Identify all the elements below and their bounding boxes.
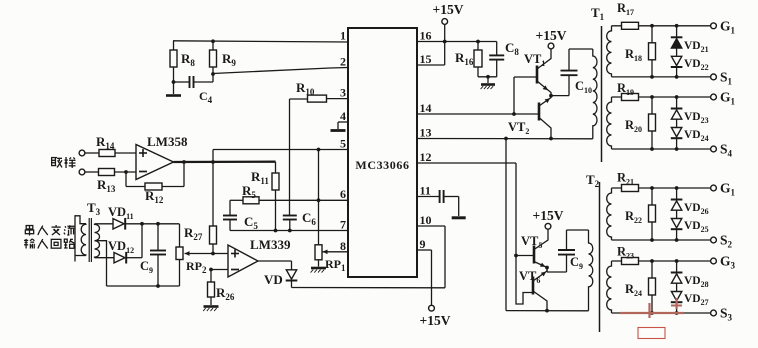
terminal S2 winding 3 (711, 233, 733, 250)
wire C10 to T1 primary (569, 48, 593, 50)
resistor R18 parallel (625, 26, 656, 77)
transistor VT5 (516, 229, 548, 267)
transformer T3 label (87, 200, 101, 217)
wire output winding 1 top G1 row (612, 24, 711, 28)
wire T3 ground rail (107, 284, 180, 288)
svg-text:11: 11 (420, 184, 431, 198)
diode VD27 (671, 283, 709, 313)
transformer T3 primary (75, 215, 86, 261)
resistor R19 series (617, 81, 639, 101)
svg-text:6: 6 (340, 187, 346, 201)
wire output winding 3 bottom S2 row (612, 238, 711, 242)
node VT2 emitter (549, 137, 553, 141)
potentiometer RP1 (311, 150, 348, 274)
svg-text:1: 1 (340, 29, 346, 43)
svg-text:2: 2 (340, 55, 346, 69)
transformer T1 label (591, 5, 605, 22)
wire output winding 1 bottom S1 row (612, 75, 711, 79)
resistor R12 feedback (126, 162, 184, 205)
resistor R20 parallel (625, 97, 656, 149)
wire T3 secondary bottom tap (95, 257, 115, 259)
diode VD22 (671, 48, 709, 77)
node pin6 wire RP1 line (317, 198, 321, 202)
resistor R9 (210, 41, 237, 74)
transformer T2 secondary 2 (607, 261, 612, 313)
diode VD25 (671, 210, 709, 240)
svg-text:3: 3 (340, 86, 346, 100)
node C6-pin7 wire (288, 229, 292, 233)
resistor R5 (230, 183, 348, 204)
svg-text:10: 10 (420, 213, 432, 227)
svg-text:5: 5 (340, 137, 346, 151)
wire LM339 output (258, 261, 292, 270)
capacitor C9 filter (140, 222, 166, 286)
svg-text:8: 8 (340, 239, 346, 253)
terminal S1 winding 1 (711, 69, 733, 86)
wire T3 secondary top tap (95, 223, 114, 225)
terminal sampling plus (79, 150, 85, 156)
svg-text:MC33066: MC33066 (355, 158, 409, 172)
transformer T2 label (586, 172, 600, 189)
transformer T1 secondary 2 (607, 97, 612, 149)
wire base tie VT1 VT2 (513, 77, 515, 114)
wire pin7 (230, 230, 348, 232)
node VT6 emitter (545, 309, 549, 313)
wire T3 center tap (95, 241, 107, 286)
transformer T2 primary (589, 230, 593, 311)
scan artifact red marks (620, 298, 684, 339)
node VT5 emitter VT6 collector (545, 266, 549, 270)
transformer T2 secondary 1 (607, 188, 612, 240)
diode VD26 (671, 188, 709, 216)
resistor R24 parallel (625, 261, 656, 313)
resistor R13 (85, 169, 136, 195)
node R9-C4-pin2 (211, 72, 215, 76)
resistor R8 (170, 41, 195, 82)
ground below R8 (166, 82, 181, 96)
svg-text:VD: VD (264, 272, 283, 287)
transformer T1 secondary 1 (607, 26, 612, 77)
wire pin9 (417, 250, 432, 305)
terminal +15V VT5 (533, 208, 564, 229)
svg-text:+15V: +15V (536, 28, 567, 43)
wire R10 to C6 (289, 99, 291, 215)
diode VD12 (108, 239, 134, 264)
wire pin14 to bases (417, 112, 516, 116)
wire pin13 ground drop (505, 139, 507, 311)
diode VD21 (671, 26, 709, 54)
transistor VT2 (508, 96, 551, 139)
wire plus input to comparator (213, 253, 228, 255)
svg-text:13: 13 (420, 126, 432, 140)
label series AC input circuit line2 (24, 239, 74, 249)
wire pin12 drop (417, 163, 516, 256)
potentiometer RP2 (176, 224, 213, 286)
wire LM358 output thick (174, 161, 276, 164)
wire VD to pin10 (292, 226, 446, 288)
wire rectified node (126, 222, 180, 226)
diode VD24 (671, 119, 709, 149)
terminal +15V top (433, 2, 464, 24)
node VT1 emitter VT2 collector (549, 94, 553, 98)
capacitor C6 (283, 210, 317, 231)
svg-text:9: 9 (420, 237, 426, 251)
capacitor C4 (174, 74, 214, 105)
terminal G1 winding 3 (711, 181, 736, 198)
wire pin2 (213, 68, 348, 74)
wire pin16 rail (417, 40, 497, 44)
capacitor C10 (551, 49, 592, 96)
comparator U3 LM339 (228, 237, 291, 277)
IC U1 pin number labels (340, 29, 432, 254)
capacitor on pin 11 (417, 190, 466, 218)
wire R16 C8 bottom (478, 75, 497, 89)
resistor R21 series (617, 171, 639, 192)
terminal sampling minus (79, 169, 85, 175)
svg-text:LM358: LM358 (147, 134, 188, 149)
capacitor C5 (223, 200, 258, 231)
wire VD12 to node (127, 224, 143, 258)
node VT5 base (514, 254, 518, 258)
wire +15V riser to pin15 (417, 24, 445, 65)
svg-text:12: 12 (420, 150, 432, 164)
terminal S3 winding 4 (711, 306, 733, 323)
diode VD11 (108, 205, 134, 230)
terminal G1 winding 1 (711, 18, 736, 35)
svg-text:4: 4 (340, 109, 346, 123)
node minus input R26 (209, 268, 228, 272)
resistor R22 parallel (625, 188, 656, 240)
transformer T3 core (89, 218, 91, 262)
terminal +15V VT1 (536, 28, 567, 49)
wire base tie VT5 VT6 (516, 256, 533, 305)
IC U1 MC33066 body (348, 28, 417, 277)
transistor VT1 (514, 49, 551, 96)
node R8-C4 (172, 80, 176, 84)
terminal S4 winding 2 (711, 142, 733, 159)
resistor R11 (251, 162, 279, 231)
wire output winding 3 top G1 row (612, 186, 711, 190)
svg-text:7: 7 (340, 218, 346, 232)
transformer T1 core (601, 26, 603, 162)
node R11-pin7 wire (274, 229, 278, 233)
terminal G1 winding 2 (711, 90, 736, 107)
ground pin 4 (331, 122, 349, 131)
node output to pin5 riser (211, 160, 215, 164)
diode VD23 (671, 97, 709, 125)
terminal G3 winding 4 (711, 254, 736, 271)
capacitor C9 driver (547, 230, 583, 272)
resistor R10 (290, 80, 327, 102)
svg-text:+15V: +15V (420, 313, 451, 328)
resistor R23 series (617, 245, 639, 265)
svg-text:15: 15 (420, 52, 432, 66)
diode VD (264, 270, 297, 287)
wire T2 primary return (506, 310, 589, 312)
transistor VT6 (519, 268, 547, 311)
resistor R16 (455, 42, 482, 77)
node LM358 output (182, 160, 186, 164)
label sampling input qu-yang (51, 157, 76, 168)
transformer T1 primary (593, 49, 597, 139)
svg-text:+15V: +15V (433, 2, 464, 17)
wire output winding 2 top G1 row (612, 95, 711, 99)
diode VD28 (671, 261, 709, 289)
op-amp U2 LM358 (136, 134, 188, 180)
resistor R14 (85, 134, 136, 157)
wire pin1 top rail (173, 39, 348, 43)
transformer T3 secondary (95, 224, 100, 258)
transformer T2 core (599, 182, 601, 332)
wire pin3 (327, 98, 348, 100)
label series AC input circuit line1 (25, 225, 75, 236)
wire output winding 4 top G3 row (612, 259, 711, 263)
resistor R17 series (617, 1, 639, 29)
svg-text:16: 16 (420, 29, 432, 43)
wire output winding 2 bottom S4 row (612, 147, 711, 151)
node inverting input (124, 170, 128, 174)
wire pin5 node to R27 (212, 162, 214, 226)
wire pin13 rail (417, 137, 593, 141)
svg-text:14: 14 (420, 101, 432, 115)
wire C9 to T2 primary (567, 229, 589, 231)
node pin5-RP1 line (317, 148, 321, 152)
resistor R26 (203, 270, 235, 312)
wire output winding 4 bottom S3 row (612, 311, 711, 315)
capacitor C8 (489, 40, 519, 77)
terminal +15V bottom (420, 305, 451, 328)
svg-text:LM339: LM339 (250, 237, 291, 252)
wire pin5 riser and pin5 (213, 150, 348, 163)
resistor R27 (184, 225, 217, 254)
node LM339 plus input (211, 252, 215, 256)
svg-text:+15V: +15V (533, 208, 564, 223)
